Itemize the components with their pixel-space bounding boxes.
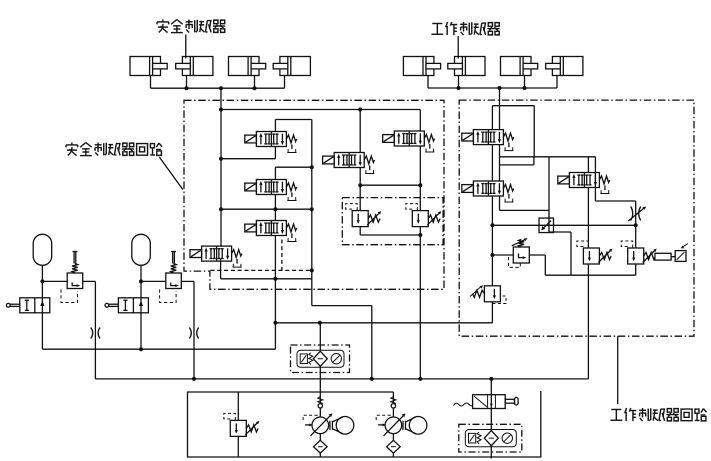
suction filter pump 1 <box>314 440 328 453</box>
junction <box>490 253 494 257</box>
wire to reducing valve RVe <box>492 254 513 256</box>
junction <box>310 268 314 272</box>
RVc spring adjust arrow <box>470 287 481 297</box>
solenoid valve A (safety) <box>245 132 297 153</box>
hand pump branch line <box>490 379 492 459</box>
manual release valve 2 <box>105 298 148 313</box>
wire <box>319 453 321 457</box>
label: safety brake circuit <box>66 143 162 156</box>
wire <box>221 278 312 280</box>
dashed drain line valve C <box>281 240 283 271</box>
wire <box>360 184 420 186</box>
relief valve RV1 <box>346 204 382 227</box>
valve F top wire <box>419 110 421 132</box>
wire to charge valve <box>141 280 166 282</box>
label: working brake circuit <box>610 408 706 421</box>
adjustable throttle T1 <box>628 207 646 222</box>
junction <box>139 279 143 283</box>
charge valve output wire <box>83 280 96 282</box>
junction <box>318 321 322 325</box>
junction <box>523 86 527 90</box>
working manifold wire <box>428 87 557 89</box>
wire <box>595 200 635 202</box>
junction <box>310 165 314 169</box>
check valve pump 2 <box>391 397 396 408</box>
pressure line through valve I <box>594 157 596 201</box>
pump 1 feed line through filter <box>319 323 321 417</box>
safety collector line <box>311 120 313 306</box>
junction <box>185 86 189 90</box>
junction <box>219 157 223 161</box>
working brake cylinder 7 <box>501 57 538 76</box>
working supply drop into valve G <box>499 88 501 130</box>
solenoid valve C (safety) <box>245 221 297 242</box>
RVc output wire <box>491 302 493 323</box>
working brake cylinder 5 <box>403 57 440 76</box>
valve F bottom wire <box>419 146 421 211</box>
solenoid valve B (safety) <box>245 180 297 201</box>
pointer line to safety circuit box <box>159 157 183 190</box>
accumulator 1 <box>33 234 52 265</box>
working brake circuit dash-dot enclosure <box>459 100 694 336</box>
wire jog <box>533 157 535 165</box>
valve A top wire <box>274 120 276 132</box>
junction <box>370 377 374 381</box>
solenoid valve G (working) <box>462 130 514 151</box>
junction <box>273 321 277 325</box>
label pointer line (working brakes) <box>457 36 459 59</box>
valve B bottom wire <box>274 195 276 210</box>
solenoid valve I (working) <box>558 173 610 194</box>
suction filter pump 2 <box>387 440 401 453</box>
flow control bus wire <box>492 224 635 226</box>
junction <box>273 207 277 211</box>
working brake cylinder 6 <box>448 57 485 76</box>
cyl5 drop wire <box>427 76 429 89</box>
wire to pressure switch <box>656 256 675 258</box>
solenoid valve D (safety) <box>190 246 242 267</box>
RV2 bottom wire / drain to pump bus <box>419 227 421 379</box>
junction <box>358 183 362 187</box>
cyl4 drop wire <box>284 76 286 89</box>
solenoid valve F (middle) <box>383 131 435 152</box>
accumulator 2 <box>132 234 151 265</box>
solenoid valve H (working) <box>462 181 514 202</box>
junction <box>418 377 422 381</box>
cyl2 drop wire <box>186 76 188 89</box>
reducing valve feed wire <box>491 196 493 286</box>
pressure valve RVb <box>621 241 657 264</box>
pressure valve RVa <box>577 241 613 264</box>
hand pump knob <box>515 397 519 405</box>
safety brake circuit dash-dot enclosure <box>184 100 444 289</box>
junction <box>219 207 223 211</box>
accumulator 2 line <box>140 265 142 298</box>
junction <box>418 183 422 187</box>
wire <box>275 166 311 168</box>
cyl7 drop wire <box>524 76 526 89</box>
accumulator 1 line <box>41 265 43 298</box>
RVc pilot dashed line <box>492 296 506 304</box>
safety relief valve pair dash-dot box <box>342 198 443 245</box>
valve I line to RVa <box>587 188 589 249</box>
solenoid valve E (middle) <box>323 153 375 174</box>
wire <box>312 305 372 307</box>
valve E bottom wire <box>359 168 361 211</box>
wire <box>221 158 275 160</box>
flow control valve <box>539 218 554 233</box>
wire <box>392 453 394 457</box>
junction <box>634 223 638 227</box>
orifice 2 <box>189 328 198 339</box>
junction <box>498 86 502 90</box>
damper block <box>655 253 671 260</box>
output drop wire <box>193 281 195 379</box>
valve G to valve H wire <box>491 145 493 181</box>
RVa output wire to pump bus <box>587 264 589 379</box>
wire (lower jog) <box>500 164 534 166</box>
manual release valve 1 <box>6 298 49 313</box>
wire (valve H loop right) <box>548 157 550 232</box>
wire (valve G loop right) <box>533 106 535 157</box>
wire <box>319 434 321 441</box>
junction <box>219 108 223 112</box>
pressure switch <box>675 251 686 262</box>
check valve pump 1 <box>318 397 323 408</box>
junction <box>418 233 422 237</box>
filter unit 1 <box>291 345 350 373</box>
wire <box>275 119 311 121</box>
wire to accumulator bus <box>41 313 43 349</box>
output drop wire <box>94 281 96 379</box>
charge valve 1 <box>61 252 83 303</box>
wire <box>529 254 545 256</box>
cyl3 drop wire <box>254 76 256 89</box>
working brake cylinder 8 <box>546 57 583 76</box>
junction <box>192 377 196 381</box>
wire <box>545 274 635 276</box>
valve H output wire <box>499 196 501 210</box>
valve B top wire <box>274 167 276 179</box>
hand pump handle <box>505 399 514 403</box>
safety main supply drop <box>220 88 222 246</box>
RVb bottom wire <box>635 264 637 275</box>
wire <box>360 234 420 236</box>
valve I top wire <box>587 157 589 173</box>
safety manifold wire <box>151 87 285 89</box>
wire <box>549 231 571 233</box>
relief valve RV2 <box>406 204 442 227</box>
wire through throttle to RVb <box>635 201 637 248</box>
cyl8 drop wire <box>556 76 558 89</box>
pointer line to working circuit box <box>617 336 619 404</box>
junction <box>273 277 277 281</box>
RVd tank wire <box>237 436 239 457</box>
wire to accumulator bus <box>140 313 142 349</box>
wire to charge valve <box>42 280 67 282</box>
wire <box>371 306 373 379</box>
safety top bus <box>221 109 420 111</box>
pump 2 feed line <box>392 392 394 417</box>
wire <box>544 255 546 275</box>
hand pump arrow <box>490 404 493 407</box>
junction <box>457 86 461 90</box>
safety brake cylinder 3 <box>229 57 266 76</box>
wire (valve H loop bottom) <box>500 209 550 211</box>
valve D bottom wire <box>220 259 222 279</box>
accumulator bus wire <box>42 348 275 350</box>
safety supply bus <box>275 322 492 324</box>
pump pressure bus <box>95 378 588 380</box>
RV1 bottom wire <box>359 227 361 235</box>
working distribution wire <box>500 156 596 158</box>
valve E top wire <box>359 110 361 153</box>
label: safety brake (anquan zhidongqi) <box>157 20 225 33</box>
junction <box>358 108 362 112</box>
RVd feed wire <box>237 392 239 420</box>
wire <box>392 434 394 441</box>
safety brake cylinder 1 <box>130 57 167 76</box>
reservoir wavy line <box>454 403 473 406</box>
junction <box>310 207 314 211</box>
junction <box>40 279 44 283</box>
valve A bottom wire <box>274 147 276 159</box>
pump unit enclosure box <box>188 391 541 457</box>
variable pump 1 with motor <box>303 414 354 436</box>
junction <box>490 223 494 227</box>
dashed sub-plate enclosure bottom (valves A-C) <box>211 269 312 271</box>
safety brake cylinder 2 <box>176 57 213 76</box>
charge valve 2 <box>160 252 182 303</box>
valve G top wire <box>491 106 493 130</box>
system relief valve RVd <box>224 413 259 436</box>
variable pump 2 with motor <box>376 414 427 436</box>
label pointer line (safety brakes) <box>185 35 187 59</box>
junction <box>253 86 257 90</box>
hand pump <box>473 395 506 409</box>
pressure reducing valve RVe <box>509 238 530 267</box>
valve G output wire <box>499 145 501 181</box>
valve C bottom wire <box>274 236 276 350</box>
valve C top wire <box>274 209 276 220</box>
orifice 1 <box>91 328 100 339</box>
pressure reducing valve RVc <box>473 286 501 302</box>
label: working brake <box>431 22 499 35</box>
wire row B-C <box>221 208 312 210</box>
junction <box>139 347 143 351</box>
cyl6 drop wire <box>458 76 460 89</box>
cyl1 drop wire <box>150 76 152 89</box>
junction <box>219 86 223 90</box>
wire (valve G loop top) <box>492 105 534 107</box>
safety brake cylinder 4 <box>273 57 310 76</box>
wire <box>570 232 572 275</box>
charge valve output wire <box>181 280 194 282</box>
filter unit 2 <box>459 424 522 452</box>
pressure switch arrow head <box>681 246 685 249</box>
junction <box>489 377 493 381</box>
